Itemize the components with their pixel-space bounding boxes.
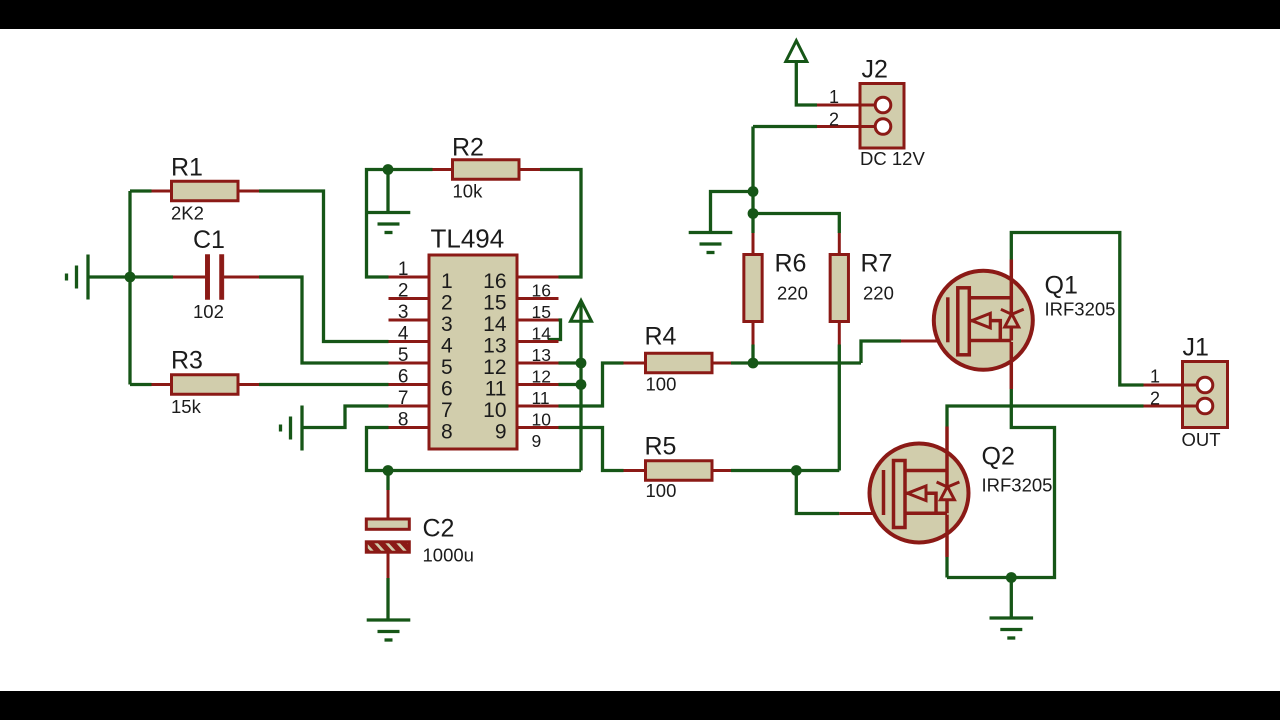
- wire branch to R7 top: [753, 214, 839, 234]
- J2 pin numbers: [829, 87, 839, 130]
- svg-text:2: 2: [398, 281, 409, 302]
- svg-text:4: 4: [398, 324, 409, 345]
- wire Q2 source: [945, 557, 948, 578]
- label R2: [452, 134, 484, 202]
- svg-text:3: 3: [441, 313, 453, 336]
- wire Q1 drain to J1 pin 1: [1011, 233, 1143, 386]
- svg-text:R1: R1: [171, 154, 203, 182]
- junction node R2 left: [383, 164, 394, 175]
- label R4: [645, 323, 677, 395]
- wire pin 14 to pin 13: [548, 320, 561, 340]
- junction node pin12 VCC: [576, 358, 587, 369]
- ground left of C1: [67, 255, 89, 300]
- svg-text:16: 16: [483, 270, 506, 293]
- svg-text:6: 6: [441, 378, 453, 401]
- svg-text:R4: R4: [645, 323, 677, 351]
- resistor R4: [624, 353, 732, 373]
- wire Q2 drain to J1 pin 2: [947, 406, 1144, 427]
- ground below Q2: [990, 618, 1034, 638]
- resistor R7: [830, 233, 848, 345]
- svg-text:10: 10: [483, 399, 506, 422]
- junction node pin11 VCC: [576, 379, 587, 390]
- wire C1 right to pin 5: [259, 277, 389, 363]
- resistor R1: [152, 181, 260, 201]
- svg-text:1: 1: [829, 87, 839, 107]
- connector J1: [1144, 362, 1228, 428]
- svg-text:DC 12V: DC 12V: [860, 148, 925, 169]
- svg-text:1: 1: [1150, 367, 1160, 387]
- svg-text:15k: 15k: [171, 396, 202, 417]
- svg-text:IRF3205: IRF3205: [982, 475, 1053, 496]
- IC pin numbers: [398, 259, 551, 451]
- ground below R2 left: [367, 213, 411, 233]
- wire pin 10 to R4: [559, 363, 624, 406]
- label J1: [1182, 334, 1221, 451]
- connector J2: [817, 84, 904, 149]
- wire Q1 source to source rail: [947, 389, 1055, 578]
- bottom letterbox bar: [0, 691, 1280, 720]
- svg-text:TL494: TL494: [431, 224, 505, 254]
- svg-text:2: 2: [1150, 389, 1160, 409]
- junction node ground J2: [748, 186, 759, 197]
- wire R5 output row: [731, 345, 839, 471]
- resistor R5: [624, 461, 732, 481]
- junction node R4 R6: [748, 358, 759, 369]
- label R7: [861, 250, 894, 304]
- svg-text:15: 15: [532, 302, 551, 322]
- svg-text:100: 100: [646, 374, 677, 395]
- wire R4 output row: [731, 345, 861, 364]
- label R6: [775, 250, 808, 304]
- label R3: [171, 347, 203, 418]
- svg-text:14: 14: [483, 313, 507, 336]
- label C1: [193, 226, 225, 322]
- label J2: [860, 56, 925, 170]
- svg-text:220: 220: [863, 283, 894, 304]
- svg-text:1: 1: [441, 270, 453, 293]
- capacitor C2: [354, 490, 438, 578]
- junction node R7 top: [748, 208, 759, 219]
- svg-text:Q2: Q2: [982, 443, 1015, 471]
- svg-text:C2: C2: [423, 515, 455, 543]
- power arrow VCC J2: [786, 41, 807, 62]
- junction node VCC C2: [383, 465, 394, 476]
- svg-text:IRF3205: IRF3205: [1045, 299, 1116, 320]
- label R1: [171, 154, 204, 224]
- ground at pin 7: [281, 406, 303, 451]
- wire pin 9 to R5: [559, 428, 624, 471]
- junction node C1 left: [125, 272, 136, 283]
- svg-text:R2: R2: [452, 134, 484, 162]
- wire ground to pin 7: [302, 406, 389, 428]
- svg-text:13: 13: [532, 345, 551, 365]
- transistor Q1: [901, 260, 1033, 390]
- resistor R6: [744, 233, 762, 345]
- wire power stem VCC: [579, 302, 582, 471]
- svg-text:5: 5: [398, 345, 409, 366]
- svg-text:8: 8: [441, 421, 453, 444]
- svg-text:13: 13: [483, 335, 506, 358]
- svg-text:15: 15: [483, 292, 506, 315]
- svg-text:7: 7: [441, 399, 453, 422]
- svg-text:1000u: 1000u: [423, 545, 474, 566]
- svg-text:4: 4: [441, 335, 453, 358]
- J1 pin numbers: [1150, 367, 1160, 409]
- svg-text:OUT: OUT: [1182, 429, 1221, 450]
- svg-text:102: 102: [193, 301, 224, 322]
- svg-text:220: 220: [777, 283, 808, 304]
- wire branch to ground: [711, 192, 754, 233]
- svg-text:C1: C1: [193, 226, 225, 254]
- wire R2 right to pin 16: [540, 170, 581, 278]
- svg-text:8: 8: [398, 410, 409, 431]
- wire C2 bottom lead: [386, 578, 389, 620]
- svg-text:14: 14: [532, 324, 552, 344]
- resistor R3: [152, 375, 260, 395]
- wire ground stem below Q2: [1010, 578, 1013, 619]
- transistor Q2: [839, 427, 968, 558]
- svg-text:R5: R5: [645, 433, 677, 461]
- svg-text:J2: J2: [862, 56, 888, 84]
- wire left node column: [88, 191, 173, 385]
- top letterbox bar: [0, 0, 1280, 29]
- svg-text:2: 2: [829, 110, 839, 130]
- wire ground stem below R2: [386, 170, 389, 213]
- label TL494: [431, 224, 505, 254]
- junction node R5 Q2 gate: [791, 465, 802, 476]
- wire power to J2 pin 1: [796, 62, 817, 105]
- svg-text:10k: 10k: [453, 181, 484, 202]
- svg-text:7: 7: [398, 388, 409, 409]
- wire R1 right to pin 4: [259, 191, 389, 342]
- svg-text:5: 5: [441, 356, 453, 379]
- power arrow VCC mid: [571, 301, 592, 322]
- wire J2 pin 2 down: [753, 127, 817, 234]
- label C2: [423, 515, 474, 566]
- wire C2 top lead: [386, 471, 389, 491]
- label Q2: [982, 443, 1053, 496]
- label Q1: [1045, 272, 1116, 320]
- wire R2 left to pin 1: [367, 170, 433, 278]
- svg-text:3: 3: [398, 302, 409, 323]
- IC U1 TL494 body and pins: [389, 255, 559, 449]
- svg-text:R7: R7: [861, 250, 893, 278]
- svg-text:R6: R6: [775, 250, 807, 278]
- wire to Q2 gate: [796, 471, 839, 514]
- resistor R2: [433, 160, 541, 180]
- svg-text:11: 11: [532, 388, 550, 408]
- ground near J2: [689, 233, 733, 253]
- svg-text:J1: J1: [1183, 334, 1209, 362]
- ground below C2: [367, 620, 411, 640]
- svg-text:1: 1: [398, 259, 409, 280]
- svg-text:R3: R3: [171, 347, 203, 375]
- svg-text:9: 9: [495, 421, 507, 444]
- junction node Q2 source ground: [1006, 572, 1017, 583]
- wire pin 11 to VCC: [559, 383, 582, 386]
- svg-text:2: 2: [441, 292, 453, 315]
- svg-text:Q1: Q1: [1045, 272, 1078, 300]
- svg-text:100: 100: [646, 480, 677, 501]
- svg-text:10: 10: [532, 410, 552, 430]
- wire pin 8 to VCC rail: [367, 428, 582, 471]
- svg-text:16: 16: [532, 281, 551, 301]
- wire R3 right to pin 6: [259, 383, 389, 386]
- wire pin 12 to VCC: [559, 361, 582, 364]
- svg-text:2K2: 2K2: [171, 203, 204, 224]
- capacitor C1: [173, 255, 259, 300]
- svg-text:9: 9: [532, 431, 542, 451]
- svg-text:12: 12: [483, 356, 506, 379]
- svg-text:12: 12: [532, 367, 551, 387]
- wire to Q1 gate: [861, 341, 901, 363]
- svg-text:11: 11: [485, 378, 507, 401]
- svg-text:6: 6: [398, 367, 409, 388]
- label R5: [645, 433, 677, 502]
